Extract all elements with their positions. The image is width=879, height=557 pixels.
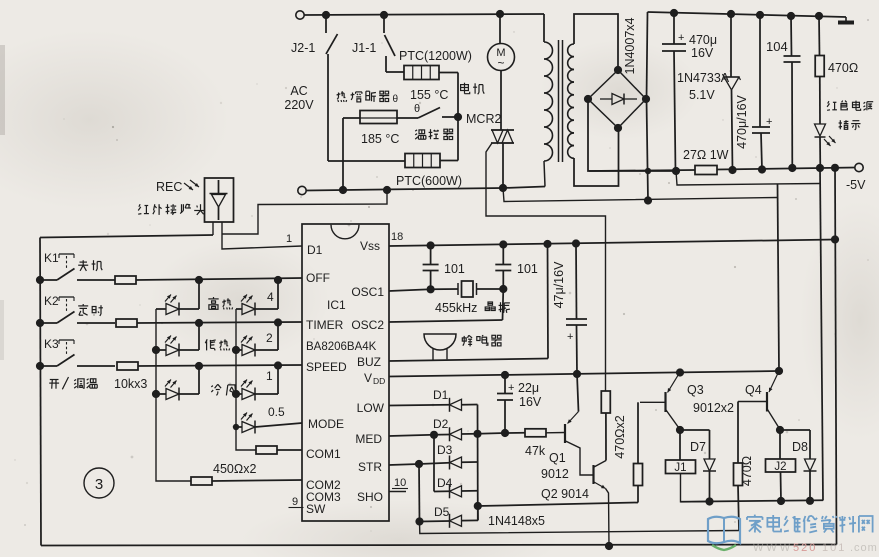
svg-text:Q4: Q4 xyxy=(745,383,762,397)
node junction AC bottom at fuse branch xyxy=(339,186,347,194)
resistor R 47k xyxy=(525,429,546,437)
svg-text:MED: MED xyxy=(355,432,382,446)
wire: D4 to node column xyxy=(462,490,478,492)
node junction relay bus at D8 xyxy=(806,497,814,505)
resistor PTC(600W) xyxy=(405,154,440,168)
wire: R470b column xyxy=(637,402,639,463)
node junction VDD at 47u col xyxy=(573,370,581,378)
node junction on top rail at J1-1 xyxy=(380,11,388,19)
capacitor C 22u/16V xyxy=(504,375,506,393)
zener diode 1N4733A xyxy=(730,14,732,77)
wire: AC top rail xyxy=(304,14,544,15)
svg-text:2: 2 xyxy=(266,331,273,345)
node junction relay bus at D7 xyxy=(705,497,713,505)
svg-text:PTC(600W): PTC(600W) xyxy=(396,174,462,188)
LED 冷风 indicator (left) xyxy=(156,393,166,395)
node junction left col L3 xyxy=(152,390,160,398)
node junction Vss at C101a xyxy=(427,241,435,249)
wire: STR row xyxy=(389,464,419,465)
node junction on top rail at motor xyxy=(496,10,504,18)
svg-text:Vss: Vss xyxy=(360,239,380,253)
wire: motor bottom lead xyxy=(500,71,502,131)
diode D3 xyxy=(449,456,451,470)
wire: LOW row xyxy=(389,404,450,407)
svg-text:470μ: 470μ xyxy=(689,33,717,47)
svg-text:3: 3 xyxy=(95,476,103,493)
svg-text:+: + xyxy=(766,116,772,128)
svg-text:PTC(1200W): PTC(1200W) xyxy=(399,49,472,63)
svg-text:θ: θ xyxy=(414,103,420,115)
node junction VDD at 22u xyxy=(501,371,509,379)
wire: Q4 collector branch to D8 xyxy=(780,429,810,431)
svg-text:MCR2: MCR2 xyxy=(466,112,501,126)
svg-text:-5V: -5V xyxy=(846,178,866,192)
node junction PSU rail at 470u/16V cap xyxy=(756,11,764,19)
label 红外接收头 xyxy=(139,204,140,207)
svg-text:1: 1 xyxy=(286,233,292,245)
svg-text:455kHz: 455kHz xyxy=(435,301,477,315)
wire: PTC1200 to right column xyxy=(439,72,458,74)
svg-text:.com: .com xyxy=(850,542,878,554)
switch J1-1 xyxy=(383,15,385,33)
svg-text:220V: 220V xyxy=(284,98,314,112)
resistor R 450R (COM2) xyxy=(191,477,212,485)
wire: J2 branch to PTC600 xyxy=(328,160,405,162)
node junction Vss at buzzer col xyxy=(543,240,551,248)
svg-text:BA8206BA4K: BA8206BA4K xyxy=(306,341,377,353)
svg-text:D5: D5 xyxy=(434,505,450,519)
wire: fuse branch down to AC rail xyxy=(342,118,344,190)
svg-text:18: 18 xyxy=(391,231,403,243)
node junction OFF row L1 xyxy=(195,276,203,284)
diode D2 xyxy=(449,427,451,441)
wire: lower bus to R470c (Q4 base feed) xyxy=(420,522,740,534)
wire: frame top edge to REC xyxy=(40,235,213,238)
wire: REC left lead to frame xyxy=(212,222,214,235)
node junction SPEED row R3 xyxy=(274,361,282,369)
switch J2-1 xyxy=(325,15,327,33)
svg-text:10: 10 xyxy=(394,477,406,489)
label circled 3 xyxy=(84,468,114,498)
relay J1 xyxy=(666,460,696,474)
svg-text:1N4733A: 1N4733A xyxy=(677,71,730,85)
svg-text:1N4007x4: 1N4007x4 xyxy=(623,17,637,74)
node junction right col R3 xyxy=(232,390,240,398)
svg-text:101: 101 xyxy=(444,262,465,276)
wire: right LED column xyxy=(236,309,256,450)
wire: R470c column xyxy=(737,402,739,464)
wire: R2 to TIMER row xyxy=(277,323,279,350)
wire: D-network common column xyxy=(477,405,479,521)
node junction -5V rail at C1 xyxy=(672,167,680,175)
wire: BUZ row xyxy=(389,359,548,362)
motor M 电机 xyxy=(488,44,515,71)
svg-text:Q2 9014: Q2 9014 xyxy=(541,487,589,501)
node junction TIMER row L2 xyxy=(195,319,203,327)
svg-text:16V: 16V xyxy=(691,46,714,60)
diode D8 xyxy=(805,459,816,471)
node junction MED at 22u xyxy=(501,429,509,437)
wire: relay return line A xyxy=(676,171,820,185)
svg-text:COM1: COM1 xyxy=(306,447,341,461)
wire: frame left border xyxy=(40,238,41,546)
wire: D5-branch column xyxy=(418,464,421,522)
svg-text:STR: STR xyxy=(358,460,382,474)
node junction line B at bridge column xyxy=(644,196,652,204)
node junction right col R2 xyxy=(232,346,240,354)
transformer secondary winding xyxy=(568,44,574,57)
svg-text:J1: J1 xyxy=(674,462,686,474)
svg-text:Q3: Q3 xyxy=(687,383,704,397)
label 低热 xyxy=(205,339,207,343)
svg-text:D7: D7 xyxy=(690,440,706,454)
svg-text:J2-1: J2-1 xyxy=(291,41,315,55)
svg-text:OFF: OFF xyxy=(306,271,330,285)
thermostat switch contact xyxy=(397,117,418,119)
LED 0.5 (right) xyxy=(236,426,242,428)
wire: D5 row xyxy=(420,520,450,523)
node junction D-network common upper xyxy=(473,430,481,438)
node junction -5V rail at zener xyxy=(728,166,736,174)
svg-text:OSC2: OSC2 xyxy=(351,318,384,332)
svg-text:SHO: SHO xyxy=(357,490,383,504)
svg-text:K2: K2 xyxy=(44,294,59,308)
node: -5V terminal xyxy=(855,163,863,171)
node junction PSU rail at 470u cap xyxy=(670,9,678,17)
wire: zero-volt line B xyxy=(503,188,778,202)
resistor R 470a (gate) xyxy=(601,391,610,413)
resistor R 470b (Q3 base) xyxy=(634,464,643,486)
resistor R (K3 row) xyxy=(117,362,138,370)
svg-text:470Ωx2: 470Ωx2 xyxy=(613,415,627,458)
svg-text:AC: AC xyxy=(290,84,307,98)
label 高热 xyxy=(213,297,215,299)
buzzer 蜂鸣器 xyxy=(424,334,456,350)
node junction AC bottom branch to REC net xyxy=(383,186,391,194)
node junction Vss at C101b xyxy=(499,240,507,248)
wire: AC bottom rail xyxy=(306,188,503,191)
node bridge left vertex xyxy=(584,95,592,103)
svg-text:D4: D4 xyxy=(437,476,453,490)
node junction STR at D5 branch xyxy=(415,460,423,468)
node junction Vss at 47u col xyxy=(572,239,580,247)
node junction VDD at Q3 xyxy=(676,368,684,376)
wire: J2 bottom xyxy=(780,472,783,501)
label 定时 xyxy=(78,305,88,307)
svg-text:J2: J2 xyxy=(774,461,786,473)
label 温控器 xyxy=(415,130,417,131)
svg-text:V: V xyxy=(364,371,372,385)
svg-text:+: + xyxy=(678,32,684,44)
node bridge top vertex xyxy=(614,66,622,74)
svg-text:9: 9 xyxy=(292,496,298,508)
node junction right col R4 xyxy=(233,424,239,430)
diode D7 xyxy=(704,459,715,471)
relay J2 xyxy=(766,459,796,472)
svg-text:1N4148x5: 1N4148x5 xyxy=(488,514,545,528)
node: AC line terminal (top) xyxy=(296,11,304,19)
wire: -5V rail xyxy=(589,170,695,171)
svg-text:~: ~ xyxy=(497,56,504,70)
wire: Q3 collector branch to D7 xyxy=(680,429,710,431)
resistor R (K1 row) xyxy=(115,276,136,284)
resistor R (K2 row) xyxy=(116,319,137,327)
svg-text:1: 1 xyxy=(266,369,273,383)
svg-text:D1: D1 xyxy=(307,243,323,257)
svg-text:SPEED: SPEED xyxy=(306,360,347,374)
svg-text:SW: SW xyxy=(306,502,326,516)
wire: left LED column xyxy=(156,309,191,481)
wire: R470a to Q2 collector xyxy=(605,413,607,461)
svg-text:470μ/16V: 470μ/16V xyxy=(735,94,749,148)
diode D5 xyxy=(449,514,451,528)
capacitor C2 470u/16V xyxy=(759,15,761,127)
wire: COM1 row xyxy=(277,449,302,451)
node junction left col L2 xyxy=(152,346,160,354)
svg-text:101: 101 xyxy=(517,262,538,276)
label 热熔断器θ xyxy=(338,93,340,98)
switch K2 xyxy=(40,322,57,324)
transformer T1 primary winding xyxy=(543,14,545,42)
wire: J1 bottom xyxy=(681,474,711,502)
node junction MED at D3 branch xyxy=(430,431,438,439)
node junction Q2 emitter frame xyxy=(605,542,613,550)
label 红色电源指示 xyxy=(828,101,829,103)
IC U1 BA8206BA4K body xyxy=(302,224,389,521)
wire: D4 row xyxy=(434,490,450,492)
wire: Q4 collector to J2 xyxy=(779,430,781,459)
node junction TIMER row R2 xyxy=(274,318,282,326)
svg-text:REC: REC xyxy=(156,180,182,194)
node junction SPEED row L3 xyxy=(195,362,203,370)
wire: AC rail to primary bottom xyxy=(503,187,545,189)
svg-text:MODE: MODE xyxy=(308,417,344,431)
switch K3 xyxy=(40,365,57,367)
node junction PSU rail at zener xyxy=(727,10,735,18)
node junction -5V rail at LED xyxy=(816,164,824,172)
svg-text:θ: θ xyxy=(393,94,399,105)
svg-text:5.1V: 5.1V xyxy=(689,88,715,102)
LED 低热 indicator (left) xyxy=(156,349,166,351)
label 关机 xyxy=(80,261,88,263)
node junction Vss row corner xyxy=(831,235,839,243)
LED 1 (right) xyxy=(236,393,242,395)
node junction VDD at Q4/V778 xyxy=(775,367,783,375)
label 电机 xyxy=(464,83,466,94)
wire: L2 to TIMER row xyxy=(198,323,200,350)
wire: node to R470b (Q3 base feed) xyxy=(478,503,638,507)
svg-text:16V: 16V xyxy=(519,395,542,409)
svg-text:BUZ: BUZ xyxy=(357,355,381,369)
wire: OSC1 row xyxy=(389,289,431,291)
wire: triac anode2 down to AC rail xyxy=(502,143,504,188)
resistor PTC(1200W) xyxy=(404,66,439,80)
LED 高热 indicator (left) xyxy=(156,308,166,310)
IR arrows into REC xyxy=(184,183,193,190)
watermark book icon xyxy=(708,517,740,544)
wire: D5 to node column xyxy=(462,519,479,521)
wire: VDD row xyxy=(389,371,779,377)
LED red power indicator xyxy=(815,124,826,136)
svg-text:K1: K1 xyxy=(44,251,59,265)
transistor Q4 9012 xyxy=(738,401,767,403)
resistor R 470c (Q4 base) xyxy=(734,463,743,486)
svg-text:9012: 9012 xyxy=(541,467,569,481)
svg-text:OSC1: OSC1 xyxy=(351,285,384,299)
node junction PSU rail at 470R xyxy=(815,12,823,20)
wire: L1 to OFF row xyxy=(198,280,200,309)
node junction -5V rail at right border xyxy=(831,164,839,172)
diode D1 xyxy=(449,398,451,412)
thermal fuse 185°C xyxy=(360,111,397,124)
svg-text:470Ω: 470Ω xyxy=(828,61,858,75)
wire: MED row xyxy=(389,435,434,436)
node bridge bottom vertex xyxy=(614,124,622,132)
svg-text:22μ: 22μ xyxy=(518,381,539,395)
LED 4 (right) xyxy=(236,308,242,310)
wire: D1 to node column xyxy=(462,404,478,406)
node junction frame K1 xyxy=(36,276,44,284)
wire: R3 to SPEED row xyxy=(277,366,279,394)
node junction frame K2 xyxy=(36,319,44,327)
node junction PSU rail at 104 xyxy=(787,12,795,20)
diode D4 xyxy=(449,484,451,498)
crystal 455kHz xyxy=(457,283,459,295)
wire: Vss row (pin18) xyxy=(389,240,835,247)
wire: R470b bottom xyxy=(637,486,639,503)
svg-text:DD: DD xyxy=(373,376,385,386)
wire: V778 vertical to VDD row xyxy=(778,185,780,372)
node junction on top rail at J2-1 xyxy=(322,11,330,19)
watermark 家电维修资料网 xyxy=(754,515,756,517)
triac MCR2 symbol xyxy=(491,129,514,131)
wire: frame bottom border xyxy=(41,545,837,546)
svg-text:+: + xyxy=(567,331,573,343)
node junction OFF row R1 xyxy=(274,276,282,284)
stub SHO pin xyxy=(389,491,406,493)
svg-text:TIMER: TIMER xyxy=(306,318,344,332)
wire: D3 to node column xyxy=(462,461,478,463)
svg-text:10kx3: 10kx3 xyxy=(114,377,147,391)
wire: TIMER row xyxy=(137,322,302,323)
node junction -5V rail at 104 xyxy=(788,164,796,172)
svg-text:LOW: LOW xyxy=(357,401,385,415)
node: AC line terminal (bottom) xyxy=(298,186,306,194)
wire: relay common line xyxy=(681,500,824,502)
bridge rectifier 1N4007x4 xyxy=(588,70,646,128)
wire: COM2 row xyxy=(213,480,303,481)
resistor R 27R 1W xyxy=(695,166,717,175)
label 蜂鸣器 xyxy=(463,336,465,343)
LED 2 (right) xyxy=(236,349,242,351)
svg-text:155 °C: 155 °C xyxy=(410,88,448,102)
wire: D7 cathode down xyxy=(709,471,711,502)
switch K1 xyxy=(40,279,57,281)
wire: fuse row left xyxy=(343,117,360,119)
svg-text:J1-1: J1-1 xyxy=(352,41,376,55)
wire: branch from AC rail to REC area xyxy=(222,190,387,234)
svg-text:101: 101 xyxy=(822,542,846,554)
wire: right border / Vss bus xyxy=(835,168,837,545)
node junction -5V rail x648 xyxy=(645,168,651,174)
wire: triac gate line xyxy=(486,143,606,391)
svg-text:450Ωx2: 450Ωx2 xyxy=(213,462,256,476)
wire: D8 cathode down xyxy=(809,471,811,501)
svg-text:47μ/16V: 47μ/16V xyxy=(552,261,566,308)
svg-text:Q1: Q1 xyxy=(549,451,566,465)
node junction thermostat/MCR2 column xyxy=(454,113,462,121)
svg-text:IC1: IC1 xyxy=(327,298,346,312)
wire: PTC600 right to thermostat column xyxy=(440,160,458,162)
IR receiver symbol xyxy=(218,180,220,194)
svg-text:185 °C: 185 °C xyxy=(361,132,399,146)
wire: R470c bottom xyxy=(738,486,739,531)
svg-text:K3: K3 xyxy=(44,337,59,351)
wire: OFF row xyxy=(136,278,302,280)
node bridge right vertex xyxy=(642,95,650,103)
node junction AC bottom at triac xyxy=(499,184,507,192)
transformer core xyxy=(558,40,560,162)
svg-text:47k: 47k xyxy=(525,444,546,458)
svg-text:520: 520 xyxy=(793,542,817,554)
wire: bridge left vertex to -5V rail xyxy=(588,99,676,171)
node junction relay bus at J2 xyxy=(777,497,785,505)
label 开/调温 xyxy=(50,379,59,381)
transistor Q2 9014 xyxy=(592,465,594,484)
node junction D5 branch lower xyxy=(415,517,423,525)
capacitor C 101 (b) xyxy=(502,245,504,265)
node junction crystal right xyxy=(499,285,507,293)
wire: L3 to SPEED row xyxy=(198,366,200,394)
wire: D3-branch column xyxy=(433,435,435,492)
svg-text:D8: D8 xyxy=(792,440,808,454)
wire: bridge right vertex column xyxy=(647,12,648,99)
capacitor C3 104 xyxy=(790,16,793,56)
svg-text:D3: D3 xyxy=(437,443,453,457)
svg-text:+: + xyxy=(508,382,514,394)
svg-text:D1: D1 xyxy=(433,388,449,402)
transistor Q1 9012 xyxy=(546,432,565,434)
ground bar xyxy=(845,17,847,21)
resistor R 450R (COM1) xyxy=(256,446,277,454)
svg-text:27Ω 1W: 27Ω 1W xyxy=(683,148,729,162)
svg-text:D2: D2 xyxy=(433,417,449,431)
node junction OSC1 crystal left xyxy=(427,285,435,293)
wire: SPEED row xyxy=(138,365,302,366)
wire: relay bus vertical x820 xyxy=(820,168,823,501)
node junction -5V rail at C2 xyxy=(758,165,766,173)
resistor R 470R (power LED) xyxy=(818,16,821,56)
label 冷风 xyxy=(211,386,213,387)
node junction Q4 collector xyxy=(776,426,784,434)
svg-text:4: 4 xyxy=(267,290,274,304)
wire: motor top lead xyxy=(499,14,501,44)
capacitor C1 470u/16V xyxy=(673,13,675,44)
wire: Q2 emitter to frame bottom xyxy=(606,489,610,547)
svg-text:9012x2: 9012x2 xyxy=(693,401,734,415)
svg-text:WWW: WWW xyxy=(753,542,793,554)
svg-text:0.5: 0.5 xyxy=(268,405,285,419)
capacitor C 47u/16V xyxy=(575,244,578,319)
wire: Q3 collector to J1 xyxy=(679,430,681,460)
node junction D-network common lower xyxy=(474,502,482,510)
wire: R1 to OFF row xyxy=(277,280,279,309)
wire: Q1 emitter to VDD xyxy=(577,374,579,412)
transistor Q3 9012 xyxy=(640,401,665,403)
svg-text:104: 104 xyxy=(766,39,788,54)
node junction frame K3 xyxy=(36,362,44,370)
wire: REC right lead to IC pin1 xyxy=(222,222,302,249)
